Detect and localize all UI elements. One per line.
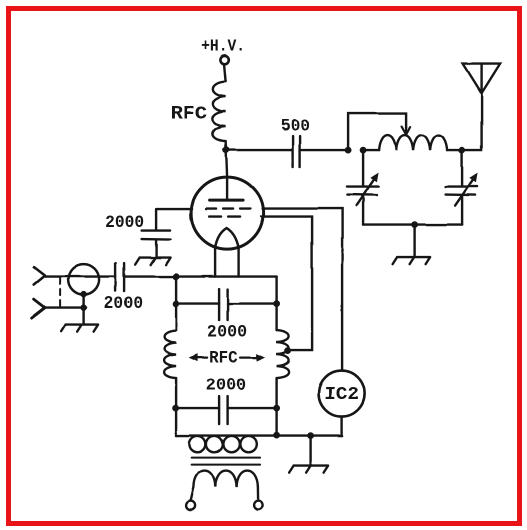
wire: feedback loop up and over to L1 tap [348,113,406,150]
arrow: tap pointing onto L1 [405,127,407,135]
svg-text:2000: 2000 [207,323,247,343]
wire: +H.V. terminal to RFC1 [224,65,226,82]
wire: row1 left [176,302,219,304]
microphone M1 [68,264,99,295]
ground (bottom) [289,466,328,473]
transformer T1 secondary [191,471,259,502]
wire: cathode leg right [237,247,239,277]
wire: tank left node down to CV1 [362,150,364,186]
junction: row1 right [273,300,280,307]
wire: V1 grid1 right to IC2 [262,209,342,371]
dashed link between jack contacts [59,278,61,306]
tube V1 envelope [191,177,263,249]
junction: tank left node [360,147,367,154]
svg-text:RFC: RFC [209,349,238,369]
wire: L1 to tank right node [447,149,462,151]
+H.V. supply terminal [220,55,228,63]
IC2 (crystal) [319,371,365,417]
svg-text:2000: 2000 [206,376,247,396]
transformer T1 primary loops [189,436,205,452]
wire: C1 to tank left node [300,149,348,151]
svg-text:RFC: RFC [170,105,207,125]
junction: row1 left [173,300,180,307]
junction: row2 left [172,405,179,412]
wire: jack top to C3 through M1 [45,275,116,277]
inductor RFC3 (right choke) [277,330,289,378]
junction: plate node [223,147,230,154]
label arrow left of RFC [192,357,207,359]
capacitor C5 2000 plate right [226,397,228,425]
variable capacitor CV2 arrow [455,180,473,206]
label arrow right of RFC [240,357,262,359]
wire: tank left node to L1 [363,149,379,151]
capacitor C4 2000 plate left [218,289,220,320]
junction: M1 shell [80,291,86,297]
wire: bottom ground stem [309,436,311,466]
tube V1 plate [210,199,244,202]
wire: left rail lower [175,378,177,436]
wire: tank right node to antenna [462,93,482,150]
capacitor C3 2000 input coupling plate left [114,263,116,291]
capacitor C1 500 plate right [299,136,301,167]
ground (input) [61,325,99,332]
junction: RFC3 tap [284,347,291,354]
junction: tank ground node [411,221,418,228]
svg-text:2000: 2000 [105,213,144,233]
input jack chevron bottom [32,299,45,318]
wire: RFC1 to plate node [224,141,227,150]
junction: jack bottom node [80,304,86,310]
wire: row2 right [228,407,277,409]
junction: feedback loop node [345,147,352,154]
wire: left rail upper [175,277,177,331]
capacitor C3 2000 input coupling plate right [123,263,125,291]
junction: bottom rail right [273,432,280,439]
wire: V1 grid2 right to RFC3 tap [261,217,312,351]
wire: plate node down to V1 plate [226,150,227,177]
capacitor C5 2000 plate left [218,397,220,425]
inductor RFC1 plate choke [213,81,226,141]
junction: rail top left [173,273,180,280]
wire: V1 grid1 left to C2 [156,209,192,231]
wire: jack bottom to ground stem [45,306,86,308]
variable capacitor CV2 plates [446,187,478,196]
wire: right rail lower [275,378,277,436]
inductor RFC2 (left choke) [164,330,176,378]
ground (C2) [135,258,170,265]
capacitor C2 2000 grid bypass [142,231,171,240]
transformer T1 core [192,458,261,465]
wire: row2 left [176,407,220,409]
capacitor C1 500 plate left [292,136,294,167]
svg-text:2000: 2000 [104,294,143,314]
input jack chevron top [34,267,45,285]
wire: row1 right [228,302,277,304]
wire: M1 shell to ground [82,295,84,325]
wire: plate node to C1 [226,149,293,151]
capacitor C4 2000 plate right [226,289,228,320]
wire: IC2 bottom lead [340,417,342,436]
antenna ANT1 [463,64,500,94]
svg-text:IC2: IC2 [324,385,359,405]
inductor L1 tank coil [379,135,447,150]
tube V1 grid 1 (dashed) [206,207,257,209]
terminal T1 secondary left [186,501,195,510]
terminal T1 secondary right [254,501,263,510]
wire: bottom rail [176,434,342,436]
wire: tank right node down to CV2 [461,150,463,186]
junction: row2 right [273,405,280,412]
tube V1 grid 2 (dashed) [209,215,246,217]
junction: tank right node [459,147,466,154]
tube V1 plate lead [226,177,228,198]
ground (tank) [393,257,431,264]
svg-text:500: 500 [281,118,310,137]
wire: CV2 to tank bottom [461,195,463,225]
wire: C3 to cathode rail top [124,275,277,277]
wire: CV1 to tank bottom [362,195,364,225]
wire: cathode leg left [214,247,216,277]
wire: tank ground stem [413,225,415,257]
tube V1 cathode [215,228,239,248]
wire: right rail upper [275,277,277,331]
junction: bottom ground node [307,432,314,439]
wire: C2 to ground [155,240,157,258]
wire: tank bottom [363,223,462,225]
variable capacitor CV1 plates [347,187,378,196]
svg-text:+H.V.: +H.V. [201,37,245,56]
variable capacitor CV1 arrow [356,180,374,206]
